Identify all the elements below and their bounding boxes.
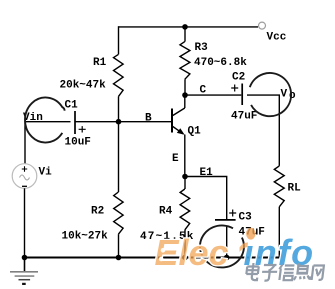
svg-text:Vi: Vi (39, 167, 53, 179)
svg-text:C3: C3 (239, 212, 253, 224)
node E1 (182, 167, 213, 179)
wire R1 bottom (118, 97, 120, 122)
svg-text:Vcc: Vcc (267, 31, 287, 43)
wire Vi to ground (24, 188, 26, 257)
svg-text:10uF: 10uF (65, 136, 91, 148)
svg-text:R4: R4 (159, 206, 173, 218)
wire C3 bottom (226, 226, 228, 258)
terminal Vcc (259, 22, 287, 43)
svg-text:Elec: Elec (155, 232, 229, 273)
node R4 ground (182, 255, 188, 261)
source Vi (12, 164, 52, 189)
annotation circle C3 (200, 225, 244, 267)
svg-text:Q1: Q1 (188, 126, 202, 138)
wire R1 top (118, 26, 120, 54)
wire R3 bottom (184, 79, 186, 95)
watermark logo Elecinfo (155, 228, 315, 273)
capacitor C1 (65, 100, 91, 149)
node ground left (22, 255, 28, 261)
svg-text:E: E (172, 153, 179, 165)
capacitor C3 (215, 210, 265, 239)
svg-text:R3: R3 (195, 42, 209, 54)
wire input from Vin (25, 121, 71, 123)
svg-text:C1: C1 (65, 100, 79, 112)
wire R2 top (118, 122, 120, 192)
wire C2 left (185, 94, 241, 96)
svg-text:R2: R2 (91, 206, 104, 218)
svg-text:B: B (145, 113, 152, 125)
node R2 ground (116, 255, 122, 261)
wire RL bottom (278, 207, 280, 258)
svg-text:470~6.8k: 470~6.8k (194, 57, 247, 69)
wire Vin drop (24, 121, 26, 164)
svg-text:C2: C2 (232, 72, 245, 84)
wire R4 bottom (184, 230, 186, 258)
resistor RL (274, 166, 301, 207)
resistor R1 (60, 54, 124, 96)
watermark chinese text (246, 263, 325, 281)
capacitor C2 (231, 72, 257, 123)
svg-text:V: V (281, 89, 288, 101)
node C (182, 84, 206, 98)
svg-text:R1: R1 (93, 57, 107, 69)
wire emitter (172, 135, 185, 177)
wire R4 top (184, 177, 186, 190)
wire R2 bottom (118, 234, 120, 257)
wire base (75, 121, 172, 123)
node C3 ground junction (224, 255, 230, 261)
wire ground rail (25, 257, 280, 259)
svg-text:20k~47k: 20k~47k (60, 80, 107, 92)
wire R3 top (184, 27, 186, 42)
wire output (247, 95, 279, 166)
node Vo + annotation circle (250, 73, 296, 116)
wire top rail (119, 26, 259, 28)
node B (116, 113, 152, 125)
wire E1 branch (185, 177, 227, 220)
transistor Q1 (172, 108, 201, 138)
wire collector (184, 95, 186, 108)
resistor R4 (140, 189, 195, 243)
resistor R2 (62, 192, 124, 243)
svg-text:RL: RL (288, 183, 302, 195)
svg-text:10k~27k: 10k~27k (62, 231, 109, 243)
svg-text:47uF: 47uF (231, 110, 257, 122)
resistor R3 (180, 42, 247, 80)
node top junction (182, 24, 188, 30)
node Vin + annotation circle (23, 98, 65, 143)
ground (10, 258, 38, 284)
